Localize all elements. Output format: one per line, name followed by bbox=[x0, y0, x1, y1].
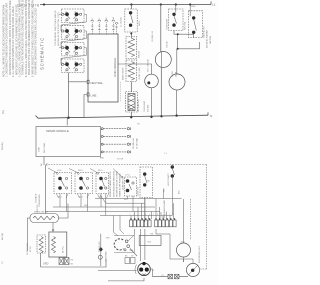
part number label bbox=[17, 4, 39, 8]
svg-text:IGNITOR: IGNITOR bbox=[37, 204, 39, 212]
svg-text:L1: L1 bbox=[165, 153, 168, 155]
svg-text:3. CHECK ALL GROUND CONNECTION: 3. CHECK ALL GROUND CONNECTIONS AND TERM… bbox=[19, 0, 22, 77]
svg-text:BK(OB): BK(OB) bbox=[2, 233, 4, 240]
svg-text:BAKE VALVE: BAKE VALVE bbox=[122, 67, 125, 80]
svg-text:DOOR ACTUATED: DOOR ACTUATED bbox=[206, 30, 209, 48]
svg-text:1CA(WH)BK: 1CA(WH)BK bbox=[104, 251, 107, 262]
svg-text:WH(OB): WH(OB) bbox=[2, 142, 4, 150]
voltage converter label bbox=[35, 193, 42, 207]
bake valve bbox=[126, 60, 137, 82]
RD label bbox=[163, 189, 180, 194]
svg-text:N: N bbox=[99, 18, 101, 20]
svg-text:36L: 36L bbox=[47, 162, 49, 166]
svg-text:BK: BK bbox=[125, 256, 128, 258]
svg-text:INSULATION TYPE ONLY 105C MINI: INSULATION TYPE ONLY 105C MINIMUM COPPER… bbox=[28, 0, 31, 75]
module bottom wire bbox=[44, 157, 46, 214]
svg-text:GY (DB) #18: GY (DB) #18 bbox=[152, 31, 154, 42]
pressure reg contact circle bbox=[98, 255, 102, 259]
wire to glo-bar bbox=[130, 82, 132, 93]
schematic title bbox=[40, 37, 45, 70]
svg-text:4. REPLACE ALL WIRE OF EQUAL G: 4. REPLACE ALL WIRE OF EQUAL GAUGE AND I… bbox=[25, 0, 28, 77]
BLK riser bbox=[200, 165, 207, 270]
svg-text:BLK: BLK bbox=[179, 190, 181, 194]
ignitor assembly oval bbox=[30, 214, 59, 223]
WH label mid bbox=[106, 238, 110, 240]
broil igniter bbox=[126, 37, 137, 59]
BR label bbox=[153, 270, 164, 277]
svg-text:BK: BK bbox=[147, 181, 150, 183]
switch drop wires bbox=[60, 194, 145, 216]
ground lugs bbox=[153, 274, 189, 279]
BK label bbox=[151, 234, 154, 236]
svg-text:SHOWN W/ DOOR CLOSED: SHOWN W/ DOOR CLOSED bbox=[116, 170, 118, 197]
dashed stub right of module bbox=[120, 82, 122, 102]
top burner switch LR bbox=[62, 26, 85, 40]
ground wire bbox=[43, 262, 49, 265]
svg-text:GRD: GRD bbox=[43, 262, 49, 265]
power plug bbox=[138, 263, 151, 276]
indicator lamp (schematic right) bbox=[169, 74, 185, 90]
oven light switch (schematic) bbox=[169, 5, 183, 31]
terminal drop wires bbox=[131, 199, 174, 220]
svg-text:RD: RD bbox=[163, 189, 165, 192]
door switch lamp bbox=[155, 52, 171, 68]
svg-text:NEUTRAL: NEUTRAL bbox=[91, 81, 104, 85]
N label bbox=[210, 114, 212, 118]
junctions on neutral bbox=[67, 114, 178, 119]
interlock switch bbox=[188, 5, 202, 38]
plug wires bbox=[98, 229, 145, 271]
dots note text bbox=[109, 170, 124, 197]
left edge labels bbox=[2, 142, 4, 264]
door switch lamp drop wire bbox=[160, 5, 163, 117]
L1 supply wire bbox=[40, 2, 211, 5]
block pin micro labels bbox=[65, 10, 77, 72]
svg-text:TIMER IN OFF POSITION: TIMER IN OFF POSITION bbox=[120, 173, 122, 197]
svg-text:SHOWN IN OFF POSITION (TYP): SHOWN IN OFF POSITION (TYP) bbox=[58, 12, 60, 46]
svg-text:OVEN LIGHT: OVEN LIGHT bbox=[144, 100, 146, 112]
oven light label left bbox=[167, 18, 169, 30]
ground terminal diamond bbox=[99, 247, 103, 252]
svg-text:LIGHT SW(TC: LIGHT SW(TC bbox=[168, 172, 170, 186]
module pins bbox=[91, 20, 118, 34]
svg-text:1. DISCONNECT POWER SUPPLY COR: 1. DISCONNECT POWER SUPPLY CORD BEFORE S… bbox=[7, 2, 9, 77]
svg-text:WITH DOOR CLOSED AND CLOCK RUN: WITH DOOR CLOSED AND CLOCK RUNNING TIMER… bbox=[15, 4, 18, 75]
svg-text:(2) OR #(8D): (2) OR #(8D) bbox=[136, 138, 138, 149]
svg-text:LF-6: LF-6 bbox=[126, 175, 131, 177]
svg-text:(2) RD # (8D): (2) RD # (8D) bbox=[139, 67, 141, 80]
svg-text:WH: WH bbox=[106, 238, 110, 240]
L1 node label bbox=[165, 153, 168, 155]
svg-text:PER WIRING DIAGRAM OF THIS RAN: PER WIRING DIAGRAM OF THIS RANGE AND LOC… bbox=[35, 8, 38, 75]
svg-text:LIGHT SW: LIGHT SW bbox=[138, 187, 140, 196]
svg-text:N: N bbox=[210, 114, 212, 118]
door actuated switch label bbox=[206, 30, 212, 48]
second riser bbox=[190, 199, 192, 240]
oval wires bbox=[27, 204, 68, 252]
drop jog ticks bbox=[57, 194, 109, 198]
svg-text:2. ALL SWITCHES SHOWN IN OFF P: 2. ALL SWITCHES SHOWN IN OFF POSITION W/… bbox=[12, 6, 15, 77]
oven lamp label bbox=[148, 59, 150, 72]
svg-text:(N): (N) bbox=[1, 110, 5, 114]
svg-text:VOLTAGE: VOLTAGE bbox=[35, 193, 38, 203]
thermostat labels bbox=[119, 17, 141, 27]
label LF bbox=[124, 175, 131, 201]
valve feed arrow bbox=[52, 223, 54, 232]
spark module pins bbox=[101, 127, 130, 153]
wire from module top to neutral bus bbox=[66, 118, 68, 125]
burner switch RF bbox=[96, 173, 109, 194]
wire color label GY bbox=[167, 41, 169, 48]
top burner switch LF bbox=[62, 9, 85, 23]
svg-text:1 2 3 4 5 6 7 8 9 0 1 2: 1 2 3 4 5 6 7 8 9 0 1 2 bbox=[130, 214, 175, 216]
WH bus label bbox=[84, 205, 88, 207]
terminal board label bbox=[161, 200, 166, 219]
gas valve box bbox=[49, 232, 67, 257]
oven lamp bbox=[145, 74, 159, 88]
L1 label bbox=[212, 3, 216, 7]
svg-text:NOTE: ALL WIRING TO BE CHECKED: NOTE: ALL WIRING TO BE CHECKED AGAINST W… bbox=[3, 5, 6, 77]
svg-text:2B: 2B bbox=[74, 71, 76, 73]
label bbox=[168, 172, 170, 186]
top burner switch RR bbox=[62, 59, 85, 73]
WH label bbox=[130, 250, 134, 252]
wire to broil igniter bbox=[130, 32, 132, 38]
wire color label bbox=[152, 31, 154, 42]
svg-text:2B: 2B bbox=[74, 54, 76, 56]
svg-text:ML PG1: ML PG1 bbox=[63, 245, 65, 253]
wire labels BK 36L bbox=[41, 162, 49, 166]
neutral bus line bbox=[36, 113, 209, 119]
svg-text:OVEN LIGHT: OVEN LIGHT bbox=[167, 18, 169, 30]
svg-text:1B: 1B bbox=[65, 37, 67, 39]
svg-text:BL8: BL8 bbox=[124, 199, 128, 201]
svg-text:OVEN MODULE: OVEN MODULE bbox=[113, 58, 117, 77]
svg-text:RED: RED bbox=[191, 6, 196, 8]
svg-text:RR-6: RR-6 bbox=[78, 170, 84, 172]
oval top label bbox=[34, 210, 48, 213]
svg-text:NEUTRAL: NEUTRAL bbox=[43, 142, 46, 153]
svg-text:PRESS REG: PRESS REG bbox=[99, 241, 101, 252]
svg-text:GLO-BAR IGN: GLO-BAR IGN bbox=[137, 99, 140, 112]
40W label bbox=[181, 242, 185, 244]
svg-text:30A MTA GRD: 30A MTA GRD bbox=[202, 26, 205, 38]
spark module box bbox=[36, 127, 101, 157]
svg-text:40W: 40W bbox=[181, 242, 185, 244]
terminal board group 2 bbox=[155, 220, 177, 227]
svg-text:DOTS INDICATE SW(TCH)S: DOTS INDICATE SW(TCH)S bbox=[112, 170, 115, 197]
pin wire labels bbox=[100, 124, 140, 161]
label TOP BURNER SWITCHES bbox=[55, 10, 60, 46]
svg-text:BK: BK bbox=[106, 17, 108, 20]
svg-text:1B: 1B bbox=[65, 21, 67, 23]
svg-text:BK: BK bbox=[41, 163, 43, 166]
pilot resistor bbox=[37, 235, 46, 253]
svg-text:GA: GA bbox=[112, 17, 115, 20]
spark module box (schematic) bbox=[87, 34, 118, 102]
svg-text:OVEN: OVEN bbox=[172, 71, 174, 77]
indicator light label bbox=[198, 245, 201, 263]
svg-text:LR-6: LR-6 bbox=[57, 170, 62, 172]
svg-text:TOP BURNER SW(TCH)ES 4REQD: TOP BURNER SW(TCH)ES 4REQD bbox=[55, 10, 57, 46]
svg-text:SW TCH: SW TCH bbox=[210, 35, 212, 44]
svg-text:BK: BK bbox=[71, 264, 74, 266]
interlock labels bbox=[191, 6, 196, 8]
svg-text:INDICATOR LIGHT: INDICATOR LIGHT bbox=[198, 245, 201, 263]
oven light switch label bbox=[185, 21, 187, 30]
svg-text:GY (8D) #16: GY (8D) #16 bbox=[133, 138, 135, 149]
indicator wires bbox=[170, 259, 193, 263]
line terminal wire bbox=[84, 95, 88, 118]
pressure regulator wire bbox=[100, 234, 102, 266]
interior light bbox=[177, 199, 191, 262]
bake valve labels bbox=[122, 67, 141, 80]
svg-text:L1 CA 30A: L1 CA 30A bbox=[119, 17, 122, 27]
svg-text:SPARK MODULE: SPARK MODULE bbox=[46, 129, 69, 133]
svg-text:L1: L1 bbox=[92, 18, 94, 20]
schematic notes bbox=[3, 0, 38, 77]
valve connector lugs bbox=[59, 258, 69, 265]
svg-text:1B: 1B bbox=[65, 71, 67, 73]
terminal pin dots bbox=[130, 218, 175, 220]
wire from switches to neutral bbox=[68, 73, 70, 118]
svg-text:SW(TCH): SW(TCH) bbox=[185, 21, 187, 30]
svg-text:TERMINALS FOR TIGHTNESS BEFORE: TERMINALS FOR TIGHTNESS BEFORE CONNECTIN… bbox=[22, 0, 25, 75]
svg-text:LM3-L: LM3-L bbox=[139, 19, 141, 26]
oven lamp wire bbox=[118, 64, 152, 117]
svg-text:1B: 1B bbox=[65, 54, 67, 56]
svg-text:GY: GY bbox=[137, 124, 140, 126]
neutral terminal wire bbox=[69, 81, 89, 83]
svg-text:SCHEMATIC: SCHEMATIC bbox=[40, 37, 45, 70]
oven burner bbox=[114, 236, 135, 253]
door light switch (wiring) bbox=[172, 169, 174, 175]
interconnect wires between switch blocks bbox=[59, 14, 87, 64]
left edge mark N bbox=[1, 110, 5, 114]
ignitor label bbox=[37, 204, 39, 212]
burner feed jogs bbox=[113, 216, 170, 260]
svg-text:BR6: BR6 bbox=[100, 158, 104, 160]
svg-text:GY OR: GY OR bbox=[117, 159, 124, 161]
broil igniter label bbox=[139, 50, 141, 58]
label RF bbox=[98, 170, 103, 198]
wires bbox=[145, 165, 173, 223]
pin labels bbox=[92, 17, 115, 20]
gas valve label bbox=[63, 245, 65, 253]
plug bottom wire bbox=[108, 278, 144, 281]
svg-text:DOOR ACTUATED SW TCH: DOOR ACTUATED SW TCH bbox=[109, 171, 112, 197]
svg-text:SV TRL LINE: SV TRL LINE bbox=[27, 242, 29, 255]
bus wires bbox=[46, 199, 182, 216]
svg-text:GY: GY bbox=[2, 260, 4, 264]
oven light sw label left bbox=[144, 100, 149, 112]
lug labels bbox=[71, 260, 74, 266]
glo-bar igniter bbox=[126, 92, 138, 113]
svg-text:(7): (7) bbox=[162, 275, 165, 277]
svg-text:2B: 2B bbox=[74, 21, 76, 23]
svg-text:LAMP: LAMP bbox=[174, 71, 177, 77]
svg-text:BL3: BL3 bbox=[148, 242, 152, 244]
wire interlock to indicator lamp bbox=[174, 31, 200, 116]
svg-text:2B: 2B bbox=[74, 37, 76, 39]
burner switch LR bbox=[54, 173, 72, 194]
svg-text:WH(OB): WH(OB) bbox=[139, 50, 141, 58]
junction dots on L1 bbox=[43, 3, 191, 5]
svg-text:LINE: LINE bbox=[39, 147, 41, 152]
branch L1 to oven switch bbox=[130, 5, 132, 10]
label RR bbox=[78, 170, 84, 198]
svg-text:RF-6: RF-6 bbox=[98, 170, 103, 172]
lamp label bbox=[172, 71, 177, 77]
small connector pair left of plug bbox=[125, 258, 135, 264]
svg-text:L1: L1 bbox=[212, 3, 216, 7]
svg-text:6: 6 bbox=[153, 270, 154, 272]
burner switch LF bbox=[125, 177, 137, 196]
bottom-left rotated label bbox=[104, 251, 107, 262]
svg-text:CONVERTER: CONVERTER bbox=[39, 194, 41, 207]
svg-text:LINE: LINE bbox=[91, 94, 97, 98]
labels bbox=[138, 181, 151, 197]
label LR bbox=[57, 170, 62, 198]
top burner switch RF bbox=[62, 42, 85, 56]
svg-text:5. WIRING SUBJECT TO CHANGE CO: 5. WIRING SUBJECT TO CHANGE CONNECTED PE… bbox=[31, 0, 34, 77]
oven light switch (wiring) bbox=[140, 167, 153, 198]
burner switch RR bbox=[75, 173, 93, 194]
svg-text:SW 40W: SW 40W bbox=[147, 104, 149, 112]
pilot label bbox=[27, 242, 32, 255]
indicator light bbox=[186, 263, 199, 276]
feed bus to burner switches bbox=[46, 165, 207, 178]
wire glo-bar to neutral bbox=[130, 112, 132, 117]
oven thermostat switch bbox=[125, 9, 137, 32]
svg-text:GY: GY bbox=[131, 256, 134, 258]
svg-text:RD: RD bbox=[71, 260, 74, 262]
svg-text:BK WH: BK WH bbox=[30, 245, 32, 252]
svg-text:SERVICING UNIT OR REPLACING PA: SERVICING UNIT OR REPLACING PARTS OF ELE… bbox=[9, 1, 12, 75]
terminal board group 1 bbox=[130, 220, 152, 227]
glo-bar label bbox=[137, 99, 140, 112]
svg-text:GY(OB): GY(OB) bbox=[167, 41, 169, 48]
svg-text:(2) BK WH #18: (2) BK WH #18 bbox=[123, 176, 125, 190]
svg-text:BK: BK bbox=[151, 234, 154, 236]
relay box bbox=[139, 236, 161, 246]
terminal number row bbox=[130, 214, 175, 216]
svg-text:MOT 1 HS(OB): MOT 1 HS(OB) bbox=[148, 59, 150, 72]
